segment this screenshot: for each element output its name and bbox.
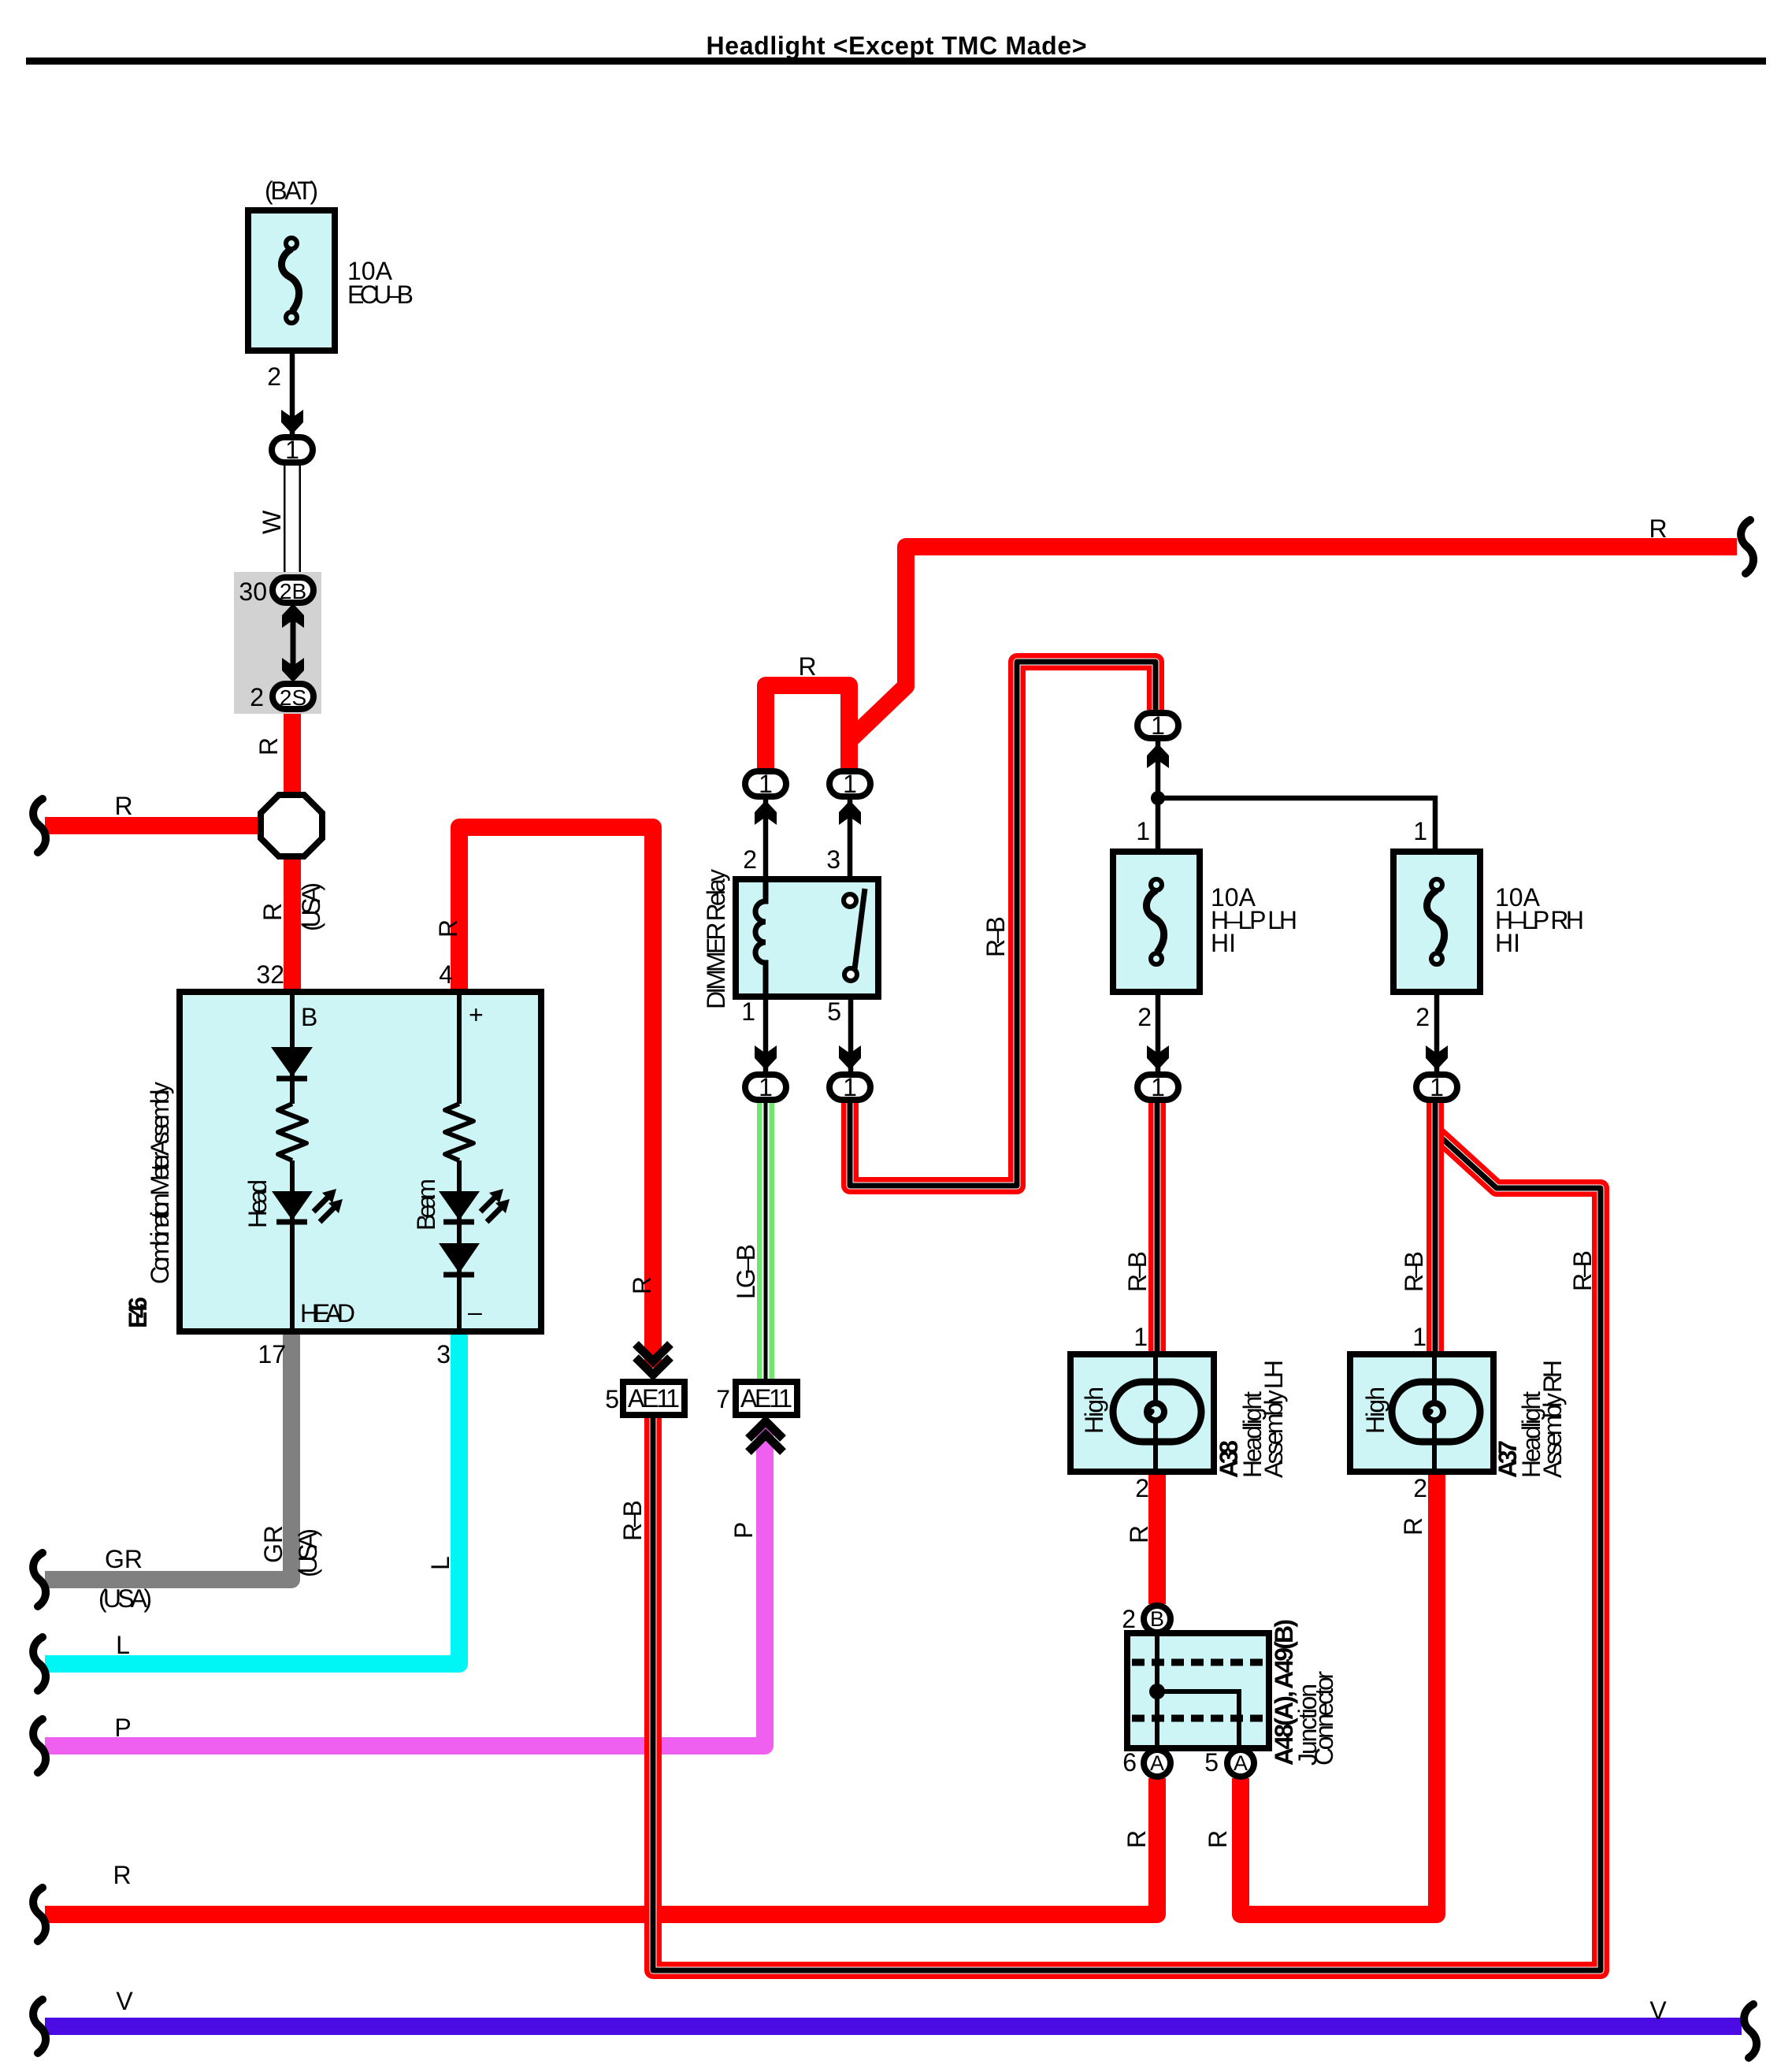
wire R: left break to octagon <box>45 817 272 834</box>
diode D1 <box>271 1047 313 1077</box>
wire L: meter pin 3 down, left to break <box>45 1330 459 1664</box>
svg-text:5: 5 <box>1204 1748 1219 1777</box>
svg-text:1: 1 <box>1151 711 1165 740</box>
double chevron into AE11 7 <box>748 1421 783 1452</box>
svg-text:R: R <box>798 652 816 681</box>
connector below relay pin 5 <box>829 1075 870 1100</box>
svg-text:Beam: Beam <box>412 1179 440 1231</box>
junction connector box A48/A49 <box>1127 1633 1269 1748</box>
junction circle A6 <box>1144 1750 1171 1777</box>
svg-text:3: 3 <box>826 845 840 874</box>
svg-text:2: 2 <box>1122 1605 1136 1633</box>
wire: fuse ECU-B pin 2 down to connector oval <box>290 351 295 436</box>
svg-text:R: R <box>434 919 462 938</box>
svg-text:1: 1 <box>285 436 299 464</box>
svg-text:HI: HI <box>1211 929 1236 957</box>
svg-text:1: 1 <box>1133 1323 1148 1351</box>
svg-text:GR: GR <box>105 1545 143 1573</box>
AE11 connector box 5 <box>623 1382 685 1415</box>
svg-text:R: R <box>1649 514 1667 543</box>
svg-text:V: V <box>116 1987 133 2015</box>
dimmer relay box <box>736 879 878 997</box>
break right of top R wire <box>1741 520 1753 574</box>
svg-text:R: R <box>114 792 132 820</box>
svg-text:1: 1 <box>1413 817 1427 845</box>
svg-text:(USA): (USA) <box>98 1584 152 1613</box>
svg-text:(USA): (USA) <box>294 1528 322 1577</box>
break right of V wire <box>1744 2004 1757 2058</box>
svg-text:L: L <box>116 1631 130 1659</box>
title rule <box>26 58 1766 65</box>
connector 1 below fuse ECU-B <box>272 437 313 462</box>
wire: relay pin 1 down to oval <box>763 995 769 1073</box>
svg-text:17: 17 <box>258 1340 286 1368</box>
arrow up into relay pin3 oval <box>839 800 861 825</box>
svg-text:AE11: AE11 <box>628 1384 680 1413</box>
headlight assembly LH box A38 <box>1070 1354 1214 1472</box>
connector above LH fuse <box>1137 713 1178 738</box>
svg-text:R: R <box>258 903 287 921</box>
svg-text:4: 4 <box>439 960 453 989</box>
connector 2S <box>273 684 314 709</box>
break left of P wire <box>33 1719 46 1773</box>
svg-text:(BAT): (BAT) <box>265 176 318 205</box>
connector below relay pin 1 <box>745 1075 786 1100</box>
arrow into 2S <box>282 658 304 682</box>
wire R: A38 pin 2 to junction B <box>1148 1466 1166 1604</box>
svg-text:R: R <box>1125 1525 1153 1543</box>
svg-text:2: 2 <box>743 845 757 874</box>
wire R-B: relay pin 5 loop to LH fuse oval <box>850 662 1156 1186</box>
fuse H-LP LH HI <box>1113 852 1200 992</box>
svg-text:(USA): (USA) <box>297 882 325 931</box>
svg-text:DIMMER Relay: DIMMER Relay <box>702 869 730 1009</box>
svg-text:5: 5 <box>605 1385 619 1413</box>
svg-text:B: B <box>301 1003 317 1031</box>
junction circle A5 <box>1227 1750 1254 1777</box>
wire: branch from node to RH fuse pin 1 <box>1158 798 1435 850</box>
arrow up into relay pin2 oval <box>755 800 777 825</box>
svg-text:2: 2 <box>1137 1003 1152 1031</box>
arrow into oval 1 <box>281 410 303 434</box>
svg-text:ECU–B: ECU–B <box>347 280 414 309</box>
LED Beam <box>439 1191 480 1220</box>
svg-text:5: 5 <box>827 997 841 1026</box>
svg-text:1: 1 <box>843 770 857 798</box>
wire LG-B: relay pin 1 to AE11 7 <box>757 1101 774 1380</box>
bulb LH <box>1153 1356 1158 1470</box>
arrow down into LH fuse lower oval <box>1147 1045 1169 1070</box>
svg-text:L: L <box>426 1556 454 1570</box>
svg-text:Assembly RH: Assembly RH <box>1538 1360 1567 1478</box>
svg-text:Headlight <Except TMC Made>: Headlight <Except TMC Made> <box>707 32 1087 60</box>
svg-text:3: 3 <box>436 1340 451 1368</box>
wire: 2B to 2S link <box>291 619 296 667</box>
bulb RH <box>1432 1356 1437 1470</box>
svg-text:2S: 2S <box>280 685 306 710</box>
junction circle B <box>1144 1606 1171 1632</box>
svg-text:1: 1 <box>1412 1323 1427 1351</box>
arrow down into relay pin5 oval <box>839 1045 861 1070</box>
svg-text:A: A <box>1150 1751 1164 1775</box>
svg-text:2: 2 <box>1135 1474 1149 1502</box>
svg-text:R: R <box>254 737 283 756</box>
svg-text:–: – <box>468 1298 482 1326</box>
oval pin texts <box>280 436 1444 1775</box>
wire: relay pin 2 up to oval <box>763 798 769 881</box>
wire R: top right break to dimmer relay pin 3 <box>849 547 1737 771</box>
wire R: junction A6 down, left to break <box>45 1778 1157 1914</box>
svg-text:R: R <box>628 1276 656 1294</box>
wire R-B: AE11 5 down, right, up, left to A37 pin1 branch <box>653 1132 1601 1970</box>
break left of R bottom wire <box>33 1888 46 1941</box>
wire W: fuse oval to 2B <box>284 464 301 579</box>
connector 2B <box>273 577 314 603</box>
svg-text:R–B: R–B <box>618 1500 647 1541</box>
headlight assembly RH box A37 <box>1350 1354 1493 1472</box>
svg-text:E46: E46 <box>124 1297 152 1328</box>
svg-text:2B: 2B <box>280 579 306 603</box>
break left of GR wire <box>33 1553 46 1606</box>
svg-text:Combination Meter Assembly: Combination Meter Assembly <box>146 1082 174 1284</box>
wire P: AE11 7 down, left to break <box>45 1426 765 1746</box>
break left of L wire <box>33 1637 46 1691</box>
svg-text:R: R <box>1399 1517 1427 1535</box>
svg-text:1: 1 <box>1430 1073 1444 1101</box>
svg-text:P: P <box>114 1714 131 1742</box>
svg-text:HI: HI <box>1495 929 1520 957</box>
svg-text:1: 1 <box>759 1073 773 1101</box>
svg-text:1: 1 <box>759 770 773 798</box>
diode D2 <box>439 1243 480 1273</box>
relay coil <box>755 881 766 995</box>
connector below LH fuse <box>1137 1075 1178 1100</box>
svg-text:R: R <box>1204 1830 1232 1848</box>
LED Head <box>272 1191 313 1220</box>
double chevron into AE11 5 <box>636 1344 670 1375</box>
svg-text:A: A <box>1234 1751 1248 1775</box>
svg-text:32: 32 <box>256 960 284 989</box>
svg-text:HEAD: HEAD <box>300 1299 355 1327</box>
svg-text:1: 1 <box>1151 1073 1165 1101</box>
break left of V wire <box>33 2000 46 2053</box>
wire: relay pin 5 down to oval <box>848 981 854 1073</box>
svg-text:Assembly LH: Assembly LH <box>1260 1360 1288 1478</box>
svg-text:R: R <box>1122 1830 1151 1848</box>
svg-text:1: 1 <box>741 997 755 1026</box>
octagon splice node <box>261 795 322 856</box>
svg-text:30: 30 <box>239 577 267 606</box>
resistor left <box>278 1104 306 1160</box>
svg-text:1: 1 <box>843 1073 857 1101</box>
svg-text:Head: Head <box>243 1179 272 1228</box>
wire R-B: RH fuse oval to A37 pin 1 <box>1427 1101 1444 1353</box>
svg-text:R: R <box>113 1861 131 1889</box>
wire: RH fuse pin 2 down to oval <box>1434 993 1440 1073</box>
arrow down into RH fuse lower oval <box>1426 1045 1448 1070</box>
arrow up into LH fuse oval <box>1147 744 1169 768</box>
svg-text:High: High <box>1080 1387 1108 1434</box>
svg-text:V: V <box>1649 1996 1667 2025</box>
arrow down into relay pin1 oval <box>755 1045 777 1070</box>
svg-text:2: 2 <box>250 683 264 711</box>
combination meter box E46 <box>180 992 541 1331</box>
svg-text:B: B <box>1150 1607 1164 1631</box>
svg-text:2: 2 <box>1413 1474 1427 1502</box>
svg-text:W: W <box>258 510 286 534</box>
svg-text:Connector: Connector <box>1310 1671 1338 1766</box>
fuse H-LP RH HI <box>1393 852 1480 992</box>
svg-text:+: + <box>469 1001 484 1029</box>
svg-text:R–B: R–B <box>1568 1250 1597 1291</box>
svg-text:R–B: R–B <box>1123 1251 1152 1292</box>
AE11 connector box 7 <box>736 1382 797 1415</box>
wire: LH fuse pin 2 down to oval <box>1156 993 1161 1073</box>
wire: LH fuse pin 1 up to oval <box>1156 741 1161 850</box>
svg-text:2: 2 <box>267 362 281 391</box>
svg-text:7: 7 <box>716 1385 730 1413</box>
svg-text:High: High <box>1361 1387 1389 1434</box>
connector above relay pin 3 <box>829 771 870 796</box>
svg-text:6: 6 <box>1122 1748 1137 1777</box>
svg-text:AE11: AE11 <box>740 1384 792 1413</box>
wire R: bridge to dimmer relay pin 2 <box>766 685 849 771</box>
wire: meter left column <box>290 995 295 1104</box>
break left of R octagon wire <box>33 799 46 852</box>
svg-text:R–B: R–B <box>981 916 1010 957</box>
wire R: junction A5 down, right, up to A37 pin 2 <box>1241 1466 1437 1914</box>
relay switch <box>855 889 865 969</box>
wire: relay pin 3 up to oval <box>848 798 853 896</box>
svg-text:R–B: R–B <box>1400 1251 1428 1292</box>
svg-text:GR: GR <box>259 1525 288 1563</box>
svg-text:P: P <box>729 1522 758 1539</box>
node on LH fuse feed <box>1151 791 1165 805</box>
wire V: bottom bus <box>45 2018 1742 2035</box>
svg-text:1: 1 <box>1136 817 1150 845</box>
arrow up into 2B <box>282 603 304 628</box>
connector below RH fuse <box>1416 1075 1457 1100</box>
svg-text:2: 2 <box>1415 1003 1430 1031</box>
wire R-B: LH fuse oval to A38 pin 1 <box>1148 1101 1166 1353</box>
junction block (gray) <box>234 572 321 714</box>
connector above relay pin 2 <box>745 771 786 796</box>
wire R: meter pin 4 up, right, down to AE11 5 <box>459 827 653 1368</box>
resistor right <box>445 1104 473 1160</box>
wire R: 2S to octagon to meter pin 32 <box>284 701 301 995</box>
wire GR: meter pin 17 down, left to break <box>45 1330 291 1580</box>
svg-text:LG–B: LG–B <box>732 1244 760 1299</box>
wire: meter right column <box>457 995 462 1104</box>
fuse ECU-B <box>248 210 335 351</box>
